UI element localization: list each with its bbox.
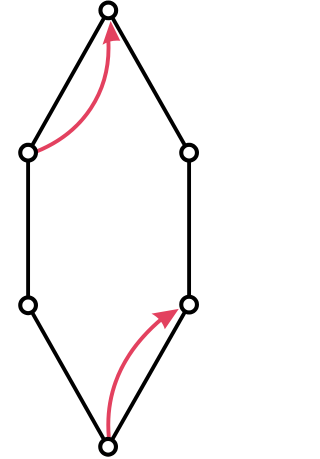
edge lower-left to bottom [28, 305, 108, 447]
edge lower-right to bottom [108, 305, 189, 447]
edge top to upper-left [28, 10, 108, 152]
node lower-right [181, 297, 197, 313]
node upper-right [181, 145, 197, 161]
node lower-left [20, 297, 36, 313]
red arrow curve bottom to lower-right [108, 318, 163, 437]
node bottom [100, 439, 116, 455]
edge top to upper-right [108, 10, 189, 152]
edge left vertical [26, 153, 30, 306]
edge right vertical [187, 153, 191, 305]
node top [100, 3, 116, 19]
red arrowhead at top node [103, 21, 121, 45]
node upper-left [20, 145, 36, 161]
red arrow curve upper-left to top [37, 40, 109, 152]
red arrowhead at lower-right node [152, 309, 179, 329]
